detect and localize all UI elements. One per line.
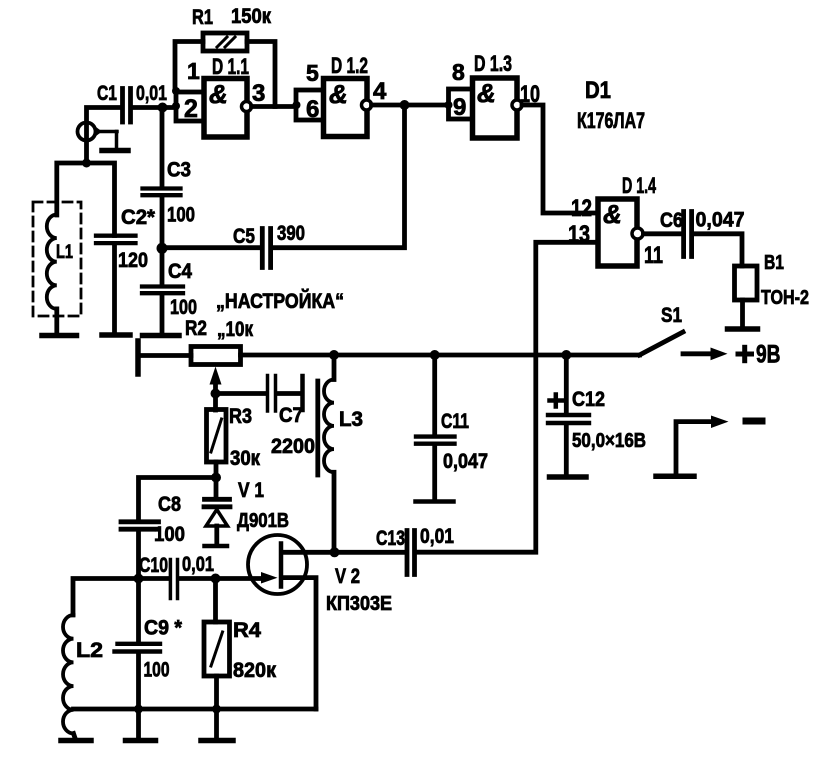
C4 ground bar	[143, 333, 180, 339]
wire node A down to C3	[160, 108, 165, 187]
svg-text:C13: C13	[376, 527, 405, 550]
wire C6 to B1	[694, 234, 742, 266]
drain wire to C13	[283, 550, 406, 555]
node C junction	[157, 243, 168, 254]
FET V2	[248, 535, 316, 709]
capacitor C6	[684, 212, 692, 257]
svg-text:К176ЛА7: К176ЛА7	[577, 108, 645, 133]
rail junction C11	[430, 350, 440, 360]
capacitor C8	[121, 522, 159, 529]
svg-text:100: 100	[170, 296, 197, 319]
wire C3 to node C	[160, 197, 165, 247]
svg-text:100: 100	[144, 659, 170, 682]
svg-text:V 2: V 2	[335, 565, 360, 588]
svg-text:C11: C11	[441, 410, 469, 433]
gate D1.3 input box	[449, 89, 473, 119]
svg-text:„10к: „10к	[217, 318, 253, 341]
wire D1.2 out to D1.3 in	[372, 103, 449, 108]
svg-text:C6: C6	[660, 209, 683, 232]
wire C8 to gate row	[136, 531, 141, 579]
svg-text:S1: S1	[661, 304, 682, 327]
C11 ground bar	[416, 499, 454, 504]
wire R4 upper	[213, 579, 218, 623]
svg-text:L2: L2	[76, 639, 103, 662]
capacitor C3	[143, 189, 181, 196]
inductor L1	[47, 215, 57, 309]
gate D1.2 output bubble	[362, 100, 372, 110]
svg-text:D 1.2: D 1.2	[331, 53, 368, 78]
gate row junction R4	[211, 574, 221, 584]
wire node C down to C4	[160, 250, 165, 285]
R2 wiper arrow	[210, 367, 222, 394]
gate D1.1 input box	[176, 92, 204, 121]
wire L1 top / jack node / C2 top	[57, 163, 115, 236]
wire C4 down	[160, 295, 165, 332]
svg-text:820к: 820к	[233, 659, 276, 682]
L3 core line	[315, 381, 320, 475]
wire R1 left to pin 1	[175, 42, 203, 91]
wire wiper to C7	[216, 391, 266, 396]
node D junction	[211, 473, 221, 483]
junction at pin 2	[172, 102, 180, 110]
wire jack to C1	[87, 108, 121, 164]
rail left ground bar	[135, 341, 141, 374]
wire D1.1 out to D1.2 in	[252, 104, 297, 109]
svg-text:100: 100	[154, 523, 185, 546]
svg-text:50,0×16В: 50,0×16В	[572, 430, 646, 452]
svg-text:120: 120	[118, 249, 148, 272]
svg-text:&: &	[209, 79, 228, 109]
capacitor C13	[407, 531, 415, 575]
svg-text:R2: R2	[185, 317, 207, 340]
svg-text:6: 6	[306, 96, 319, 123]
svg-text:R3: R3	[229, 405, 252, 428]
junction at pin 9	[445, 101, 453, 109]
wire D1.3 out to D1.4 pin 12	[522, 105, 598, 213]
potentiometer R2	[191, 347, 241, 365]
wire C12 from rail	[564, 355, 569, 414]
svg-text:R4: R4	[233, 619, 261, 642]
junction at pin 1	[172, 87, 180, 95]
L1 bottom lead	[54, 309, 59, 332]
svg-text:30к: 30к	[230, 447, 260, 470]
node B junction	[400, 100, 410, 110]
wire rail left segment	[140, 353, 191, 358]
gate row junction C8/C9	[134, 574, 144, 584]
gate D1.1 body	[204, 79, 247, 138]
svg-text:C10: C10	[139, 554, 168, 577]
wire node D to C8	[139, 478, 217, 520]
inductor L2	[63, 615, 75, 738]
capacitor C5	[262, 229, 270, 268]
svg-text:L1: L1	[56, 242, 73, 263]
svg-text:9В: 9В	[756, 341, 781, 369]
capacitor C2	[96, 236, 136, 243]
bottom rail	[74, 707, 317, 712]
svg-text:C1: C1	[97, 82, 117, 105]
L1 ground bar	[42, 333, 77, 339]
+9V arrow	[683, 348, 728, 361]
resistor R1	[203, 33, 247, 51]
C11 lower lead	[432, 446, 437, 500]
svg-text:0,047: 0,047	[443, 450, 488, 473]
drain junction L3	[330, 547, 340, 557]
wire R3 to node D	[214, 462, 219, 478]
svg-text:0,01: 0,01	[420, 525, 454, 548]
svg-text:9: 9	[453, 94, 466, 121]
svg-text:&: &	[477, 78, 496, 108]
wire wiper to R3	[213, 394, 218, 411]
C9 lower lead	[136, 654, 141, 738]
svg-text:„НАСТРОЙКА“: „НАСТРОЙКА“	[216, 289, 344, 313]
C2 ground bar	[102, 332, 130, 338]
capacitor C4	[142, 287, 183, 294]
C9 ground bar	[126, 738, 156, 744]
svg-text:C7: C7	[279, 404, 303, 427]
svg-text:5: 5	[306, 60, 319, 86]
switch S1 arm	[640, 332, 684, 355]
bottom rail junction R4	[212, 705, 221, 714]
capacitor C11	[416, 437, 455, 444]
gate D1.4 body	[598, 199, 637, 266]
C7 end ground bar	[300, 376, 305, 410]
capacitor C1	[123, 89, 131, 123]
resistor R3	[207, 410, 227, 463]
wire C9 upper	[136, 579, 141, 642]
rail junction C12	[561, 350, 571, 360]
minus terminal ground bar	[656, 474, 694, 480]
B1 bottom lead	[740, 300, 745, 327]
phone B1	[735, 266, 758, 300]
L2 ground bar	[61, 738, 91, 744]
resistor R4	[204, 622, 230, 676]
capacitor C7	[268, 376, 301, 412]
svg-text:2200: 2200	[271, 435, 315, 458]
svg-text:100: 100	[167, 204, 195, 227]
wire pin 13 and riser to C13	[417, 242, 599, 552]
+9V label	[738, 352, 752, 357]
svg-text:&: &	[603, 199, 622, 229]
L1 shield dashed box	[33, 202, 81, 316]
wire D1.4 out to C6	[644, 231, 682, 236]
supply rail	[241, 353, 640, 358]
svg-text:0,047: 0,047	[696, 209, 745, 232]
svg-text:11: 11	[644, 242, 663, 269]
svg-text:&: &	[329, 79, 348, 109]
gate D1.1 output bubble	[242, 102, 252, 112]
svg-text:3: 3	[252, 80, 265, 107]
inductor L3	[324, 355, 334, 552]
minus arrow	[711, 416, 729, 429]
svg-text:D 1.4: D 1.4	[622, 173, 656, 198]
svg-text:1: 1	[187, 58, 200, 84]
svg-text:Д901В: Д901В	[237, 510, 289, 532]
varicap V1	[204, 479, 230, 546]
svg-text:C9 *: C9 *	[144, 617, 183, 640]
svg-text:C12: C12	[572, 388, 605, 411]
gate D1.2 input box	[296, 90, 324, 120]
capacitor C10	[170, 560, 177, 599]
svg-text:D 1.1: D 1.1	[212, 54, 249, 79]
wire C5 to node C	[162, 245, 260, 250]
gate wire row	[73, 579, 260, 616]
svg-text:13: 13	[568, 221, 590, 248]
input jack X1	[78, 122, 118, 148]
node A junction	[158, 103, 168, 113]
gate D1.3 output bubble	[512, 100, 522, 110]
wire node B down to C5 row	[273, 105, 405, 248]
svg-text:R1: R1	[192, 6, 213, 29]
C12 lower lead	[564, 425, 569, 475]
svg-text:0,01: 0,01	[136, 82, 167, 105]
svg-text:ТОН-2: ТОН-2	[761, 287, 809, 309]
C12 plus sign	[550, 395, 563, 407]
jack node junction	[82, 159, 91, 168]
svg-text:C3: C3	[167, 159, 191, 182]
B1 ground bar	[728, 326, 758, 332]
svg-text:В1: В1	[764, 252, 784, 274]
bottom rail junction C9	[134, 705, 143, 714]
wire C11 from rail	[432, 355, 437, 435]
svg-text:C5: C5	[233, 225, 255, 248]
gate D1.4 output bubble	[632, 228, 643, 239]
C12 ground bar	[550, 474, 587, 480]
wire C2 down	[112, 245, 117, 332]
gate D1.2 body	[324, 79, 368, 137]
minus terminal wire	[676, 422, 711, 474]
svg-text:2: 2	[184, 95, 198, 123]
svg-text:L3: L3	[339, 408, 363, 431]
wire R1 right to output node	[247, 42, 275, 107]
svg-text:C2*: C2*	[121, 206, 156, 229]
rail junction L3	[329, 350, 339, 360]
svg-text:150к: 150к	[231, 5, 271, 28]
svg-text:0,01: 0,01	[182, 553, 214, 576]
svg-text:C4: C4	[168, 260, 192, 283]
wire C1 to node A	[133, 105, 177, 110]
minus sign	[746, 418, 762, 425]
svg-text:C8: C8	[158, 493, 181, 516]
svg-text:V 1: V 1	[238, 479, 264, 502]
R4 lower lead	[214, 676, 219, 738]
svg-text:390: 390	[277, 222, 305, 245]
svg-text:D1: D1	[585, 77, 611, 104]
node wiper junction	[211, 389, 221, 399]
svg-text:8: 8	[452, 59, 465, 85]
svg-text:12: 12	[571, 195, 592, 222]
svg-text:КП303Е: КП303Е	[326, 593, 392, 615]
gate D1.3 body	[473, 78, 518, 138]
capacitor C12	[548, 415, 589, 423]
svg-text:4: 4	[373, 78, 387, 105]
R4 ground bar	[201, 738, 233, 744]
junction at pin 6	[293, 101, 301, 109]
svg-text:D 1.3: D 1.3	[474, 51, 512, 76]
capacitor C9	[115, 644, 161, 652]
jack sleeve ground bar	[102, 148, 128, 154]
